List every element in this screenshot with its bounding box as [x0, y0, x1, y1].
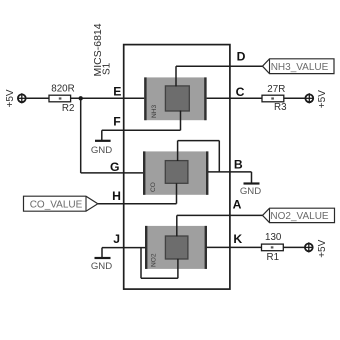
svg-text:J: J: [113, 232, 120, 246]
svg-text:NH3: NH3: [151, 104, 158, 118]
svg-text:R2: R2: [62, 103, 75, 114]
ground symbol (B): [240, 184, 261, 197]
net tag NO2_VALUE: [263, 208, 335, 222]
wire CO electrode top riser: [177, 141, 179, 161]
sensor element NH3 (top): [144, 77, 206, 120]
svg-text:27R: 27R: [267, 84, 285, 95]
+5V supply symbol (right, K row): [305, 239, 328, 257]
svg-text:NO2: NO2: [151, 253, 158, 267]
wire D riser to NH3 electrode: [175, 66, 177, 86]
wire pin H row to CO_VALUE: [98, 203, 177, 205]
wire riser top across: [178, 140, 220, 142]
IC outline S1 (MICS-6814 package boundary): [124, 45, 230, 290]
svg-text:CO: CO: [150, 182, 157, 192]
svg-text:820R: 820R: [51, 84, 74, 95]
resistor R3: [262, 84, 287, 113]
+5V supply symbol (left): [5, 89, 26, 107]
wire NO2 electrode bottom riser: [177, 259, 179, 279]
wire pin J row: [102, 247, 146, 249]
svg-text:GND: GND: [240, 186, 261, 197]
wire B GND drop: [251, 172, 253, 183]
sensor element CO (middle): [143, 151, 208, 194]
svg-text:A: A: [233, 197, 242, 211]
wire pin A row to NO2_VALUE: [177, 214, 263, 216]
svg-text:F: F: [113, 115, 120, 129]
wire down to B row: [218, 141, 220, 172]
wire F GND drop: [101, 130, 103, 140]
svg-text:R3: R3: [274, 102, 287, 113]
svg-text:E: E: [113, 84, 121, 98]
wire bottom across: [141, 277, 178, 279]
wire F riser to NH3 electrode bottom: [180, 111, 182, 131]
wire +5V to R2: [26, 97, 49, 99]
sensor element NO2 (bottom): [145, 226, 207, 269]
svg-text:GND: GND: [91, 145, 112, 156]
wire CO electrode bottom riser (H): [176, 183, 178, 203]
svg-text:C: C: [236, 85, 245, 99]
wire NO2 electrode top riser (A): [176, 215, 178, 236]
svg-text:CO_VALUE: CO_VALUE: [30, 199, 83, 210]
resistor R2: [49, 84, 75, 114]
wire up to J row: [140, 248, 142, 279]
junction node (+5V rail): [79, 96, 83, 100]
ground symbol (F): [91, 141, 112, 156]
wire pin K row: [207, 246, 262, 248]
wire +5V rail down to G row: [80, 98, 82, 173]
svg-text:G: G: [110, 160, 119, 174]
wire R2 to pin E: [71, 97, 145, 99]
svg-text:+5V: +5V: [317, 239, 328, 257]
svg-text:R1: R1: [267, 252, 280, 263]
resistor R1: [262, 232, 284, 263]
svg-text:H: H: [112, 189, 121, 203]
wire J GND drop: [101, 248, 103, 258]
wire R3 to +5V: [284, 97, 306, 99]
net tag NH3_VALUE: [263, 59, 335, 74]
svg-text:S1: S1: [102, 62, 113, 75]
+5V supply symbol (right, C row): [305, 90, 328, 108]
wire pin B row: [208, 171, 252, 173]
svg-text:+5V: +5V: [317, 90, 328, 108]
net tag CO_VALUE: [24, 196, 98, 211]
svg-text:NH3_VALUE: NH3_VALUE: [271, 62, 329, 73]
svg-text:K: K: [233, 232, 242, 246]
svg-text:GND: GND: [91, 261, 112, 272]
wire pin F from GND to NH3 electrode bottom riser: [102, 129, 181, 131]
svg-text:130: 130: [265, 232, 282, 243]
ground symbol (J): [91, 258, 112, 272]
svg-text:NO2_VALUE: NO2_VALUE: [270, 211, 329, 222]
svg-text:D: D: [237, 50, 246, 64]
wire pin D to NH3_VALUE: [176, 65, 263, 67]
wire NH3 right plate to R3: [207, 97, 262, 99]
wire R1 to +5V: [283, 246, 305, 248]
wire rail to pin G: [81, 172, 145, 174]
svg-text:+5V: +5V: [5, 89, 16, 107]
svg-text:B: B: [234, 158, 243, 172]
